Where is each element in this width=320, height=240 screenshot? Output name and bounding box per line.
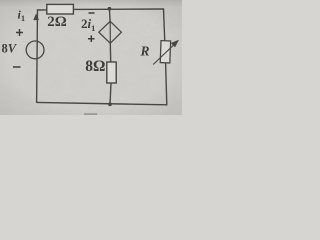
plus sign (8V): [16, 29, 23, 36]
svg-text:R: R: [140, 43, 150, 58]
svg-text:8Ω: 8Ω: [85, 58, 105, 75]
resistor 2Ω (box): [47, 4, 74, 14]
dependent source 2i1 (diamond): [99, 21, 122, 43]
wire left: [36, 10, 39, 102]
arrow through R: [153, 41, 178, 65]
wire top: [38, 9, 164, 10]
svg-text:2Ω: 2Ω: [47, 14, 67, 30]
wire right: [164, 9, 167, 105]
source 8V (circle): [26, 41, 44, 59]
svg-text:8V: 8V: [2, 42, 18, 56]
paper background: [0, 0, 182, 115]
node dot top (junction): [108, 7, 112, 11]
resistor R (box, adjustable): [160, 41, 170, 63]
node dot bottom (junction): [108, 102, 112, 106]
resistor 8Ω (box): [107, 62, 116, 83]
minus sign (8V): [13, 66, 21, 68]
current arrow i1: [34, 15, 38, 20]
wire bottom: [37, 102, 167, 104]
wire middle branch: [109, 9, 111, 104]
caption fragment (cut off): [84, 113, 97, 115]
plus sign (2i1): [88, 35, 95, 42]
minus sign (2i1): [89, 12, 95, 14]
arrow inside diamond: [109, 22, 111, 43]
